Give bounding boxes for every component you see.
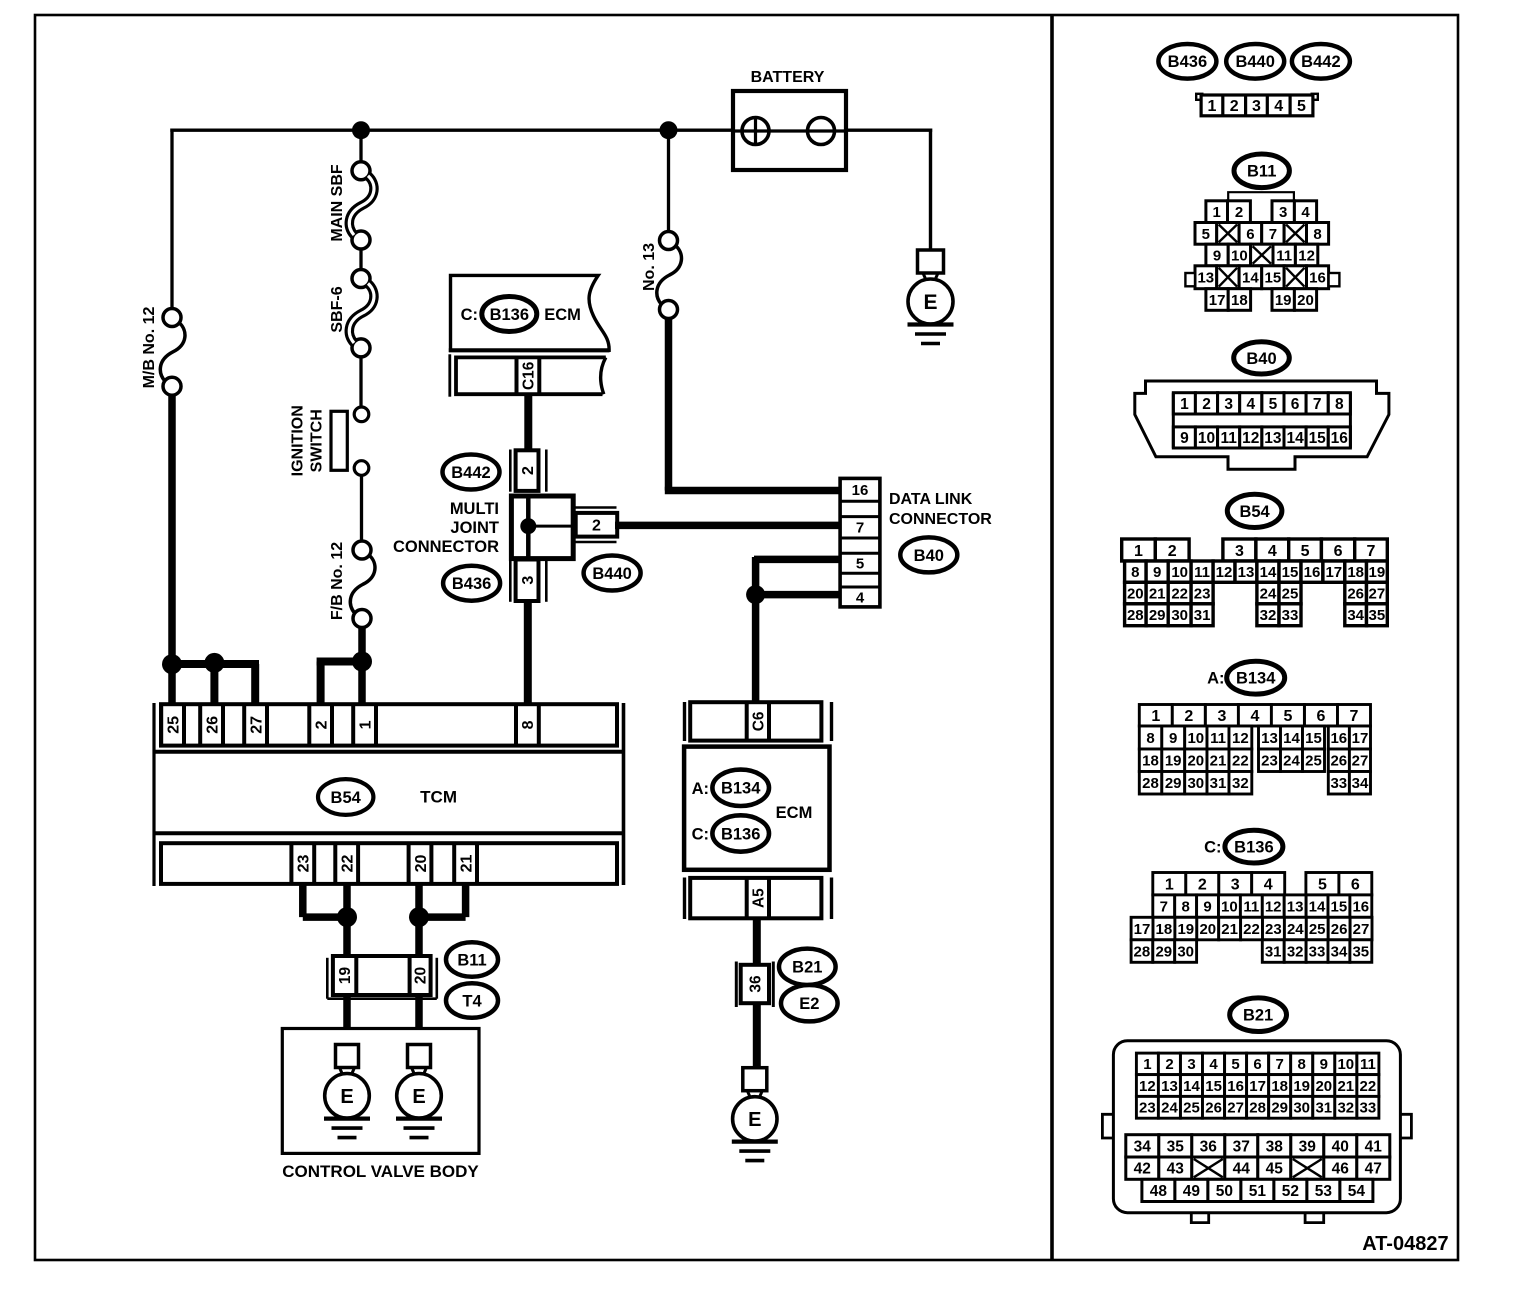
svg-text:9: 9 — [1320, 1056, 1328, 1073]
fuse No. 13 — [657, 232, 682, 319]
connector label B54 — [1227, 494, 1282, 527]
svg-text:4: 4 — [1301, 204, 1310, 221]
ground E (battery negative) — [908, 250, 954, 344]
svg-text:19: 19 — [1275, 292, 1292, 309]
svg-text:B11: B11 — [1247, 163, 1276, 181]
wire: pin 36 to ground — [753, 1003, 761, 1068]
svg-text:42: 42 — [1134, 1161, 1151, 1178]
panel divider — [1050, 16, 1054, 1259]
node: junction TCM 22/23 — [337, 907, 357, 927]
svg-text:14: 14 — [1242, 270, 1259, 287]
connector B442 pin 2 — [510, 450, 546, 492]
svg-text:33: 33 — [1360, 1100, 1377, 1117]
svg-text:6: 6 — [1291, 396, 1300, 413]
svg-text:28: 28 — [1127, 607, 1144, 624]
svg-text:3: 3 — [1224, 396, 1233, 413]
svg-text:23: 23 — [1139, 1100, 1156, 1117]
svg-text:CONNECTOR: CONNECTOR — [393, 538, 499, 556]
svg-text:27: 27 — [1352, 753, 1369, 770]
TCM pin 26 — [200, 704, 223, 745]
label T4 — [446, 983, 498, 1018]
svg-text:9: 9 — [1213, 247, 1221, 264]
svg-text:C6: C6 — [750, 711, 767, 731]
svg-text:9: 9 — [1180, 430, 1189, 447]
svg-text:10: 10 — [1171, 564, 1188, 581]
svg-text:7: 7 — [1276, 1056, 1284, 1073]
svg-text:15: 15 — [1309, 430, 1327, 447]
connector B436 pin 3 — [510, 559, 546, 602]
svg-text:7: 7 — [1269, 226, 1277, 243]
svg-text:35: 35 — [1369, 607, 1386, 624]
label B21 — [779, 949, 836, 985]
svg-text:A5: A5 — [750, 888, 767, 908]
svg-text:2: 2 — [1198, 877, 1207, 894]
svg-text:C16: C16 — [521, 361, 538, 390]
svg-text:40: 40 — [1332, 1138, 1349, 1155]
svg-text:4: 4 — [1264, 877, 1273, 894]
svg-text:4: 4 — [856, 589, 865, 606]
svg-text:35: 35 — [1352, 943, 1369, 960]
svg-text:1: 1 — [1165, 877, 1174, 894]
svg-text:27: 27 — [1369, 585, 1386, 602]
svg-text:50: 50 — [1216, 1183, 1233, 1200]
svg-text:B54: B54 — [1239, 503, 1270, 521]
module TCM with connector B54 — [154, 703, 624, 886]
wire: branch to TCM pins 26 and 27 — [172, 660, 259, 668]
svg-text:16: 16 — [852, 482, 869, 499]
svg-text:19: 19 — [1293, 1078, 1310, 1095]
svg-text:SWITCH: SWITCH — [308, 409, 325, 472]
svg-text:6: 6 — [1317, 708, 1326, 725]
svg-text:8: 8 — [1298, 1056, 1306, 1073]
svg-text:ECM: ECM — [776, 804, 813, 822]
wire: MAIN SBF branch vertical — [359, 129, 362, 164]
svg-text:8: 8 — [1146, 730, 1154, 747]
svg-text:B136: B136 — [1234, 839, 1273, 857]
svg-text:15: 15 — [1305, 730, 1322, 747]
svg-text:4: 4 — [1274, 98, 1283, 115]
svg-text:32: 32 — [1287, 943, 1304, 960]
svg-text:B442: B442 — [451, 464, 490, 482]
svg-text:2: 2 — [520, 466, 537, 475]
svg-text:8: 8 — [1335, 396, 1344, 413]
svg-text:20: 20 — [1297, 292, 1314, 309]
svg-text:27: 27 — [1227, 1100, 1244, 1117]
svg-text:M/B No. 12: M/B No. 12 — [141, 307, 158, 389]
svg-text:22: 22 — [340, 855, 357, 873]
label B440 — [584, 556, 641, 591]
node: junction TCM 20/21 — [409, 907, 429, 927]
svg-text:1: 1 — [1207, 98, 1216, 115]
svg-text:5: 5 — [1202, 226, 1210, 243]
svg-text:11: 11 — [1243, 899, 1259, 916]
svg-text:16: 16 — [1227, 1078, 1244, 1095]
svg-text:10: 10 — [1187, 730, 1204, 747]
wire: MJC B440 pin 2 to DLC pin 7 — [615, 522, 841, 530]
svg-text:7: 7 — [1350, 708, 1359, 725]
connector label B442 — [1292, 44, 1350, 79]
svg-text:B134: B134 — [1236, 670, 1276, 688]
TCM pin 22 — [335, 843, 358, 884]
node: junction at TCM pin 25 — [162, 654, 182, 674]
svg-text:B134: B134 — [721, 780, 761, 798]
wire: branch to TCM pin 2 — [317, 658, 362, 666]
fuse F/B No. 12 — [350, 541, 375, 628]
module ECM A:B134 C:B136 — [685, 702, 832, 741]
svg-text:9: 9 — [1203, 899, 1211, 916]
svg-text:MULTI: MULTI — [450, 500, 499, 518]
svg-text:B21: B21 — [1243, 1007, 1273, 1025]
svg-text:32: 32 — [1337, 1100, 1354, 1117]
svg-text:3: 3 — [1187, 1056, 1195, 1073]
node: junction at TCM pin 26 branch — [204, 653, 224, 673]
svg-text:19: 19 — [1177, 921, 1194, 938]
node: bus junction at No.13 — [660, 121, 678, 139]
svg-text:E: E — [412, 1086, 425, 1108]
label E2 — [781, 985, 838, 1021]
svg-text:1: 1 — [357, 720, 374, 729]
svg-text:E: E — [748, 1109, 761, 1131]
svg-text:22: 22 — [1171, 585, 1188, 602]
svg-text:4: 4 — [1246, 396, 1255, 413]
svg-text:45: 45 — [1266, 1161, 1284, 1178]
svg-text:B436: B436 — [452, 575, 491, 593]
svg-text:24: 24 — [1283, 753, 1300, 770]
svg-text:5: 5 — [1297, 98, 1306, 115]
svg-text:3: 3 — [1217, 708, 1226, 725]
svg-text:E: E — [923, 291, 937, 314]
svg-text:29: 29 — [1155, 943, 1172, 960]
svg-text:26: 26 — [1205, 1100, 1222, 1117]
svg-text:4: 4 — [1209, 1056, 1218, 1073]
svg-text:13: 13 — [1161, 1078, 1178, 1095]
svg-text:54: 54 — [1348, 1183, 1366, 1200]
wire: F/B fuse to TCM pin 1 — [358, 627, 366, 705]
svg-text:27: 27 — [248, 716, 265, 734]
svg-text:C:: C: — [461, 306, 478, 324]
svg-text:4: 4 — [1250, 708, 1259, 725]
svg-text:15: 15 — [1205, 1078, 1222, 1095]
label B442 — [443, 455, 500, 490]
svg-text:A:: A: — [692, 780, 709, 798]
svg-text:5: 5 — [1269, 396, 1278, 413]
svg-text:7: 7 — [1367, 543, 1376, 560]
svg-text:E2: E2 — [799, 995, 819, 1013]
wire: TCM pin 23 / 22 to T4 pin 19 — [299, 884, 307, 917]
svg-text:30: 30 — [1177, 943, 1194, 960]
svg-text:8: 8 — [1131, 564, 1139, 581]
wire: MJC B436 pin 3 to TCM pin 8 — [524, 600, 532, 705]
svg-text:2: 2 — [1184, 708, 1193, 725]
svg-text:B54: B54 — [331, 789, 362, 807]
svg-text:34: 34 — [1331, 943, 1348, 960]
svg-text:6: 6 — [1351, 877, 1360, 894]
svg-text:3: 3 — [520, 576, 537, 585]
connector B440 pin 2 — [575, 508, 618, 543]
wire: M/B fuse to TCM pin 25 — [168, 394, 176, 705]
svg-text:28: 28 — [1249, 1100, 1266, 1117]
svg-text:5: 5 — [856, 556, 864, 573]
svg-text:14: 14 — [1309, 899, 1326, 916]
svg-text:26: 26 — [1331, 921, 1348, 938]
svg-text:9: 9 — [1169, 730, 1177, 747]
svg-text:53: 53 — [1315, 1183, 1333, 1200]
wire: T4 pin 20 to valve body — [415, 995, 423, 1045]
svg-text:22: 22 — [1360, 1078, 1377, 1095]
svg-text:JOINT: JOINT — [450, 519, 499, 537]
svg-text:11: 11 — [1360, 1056, 1376, 1073]
svg-text:2: 2 — [1168, 543, 1177, 560]
data link connector B40 — [840, 478, 880, 607]
svg-text:1: 1 — [1213, 204, 1221, 221]
svg-text:29: 29 — [1165, 775, 1182, 792]
TCM pin 8 — [516, 704, 539, 745]
svg-text:49: 49 — [1183, 1183, 1201, 1200]
svg-text:22: 22 — [1243, 921, 1260, 938]
svg-text:8: 8 — [1313, 226, 1321, 243]
ground E (valve body left) — [324, 1045, 370, 1138]
svg-text:2: 2 — [1230, 98, 1239, 115]
svg-text:36: 36 — [747, 975, 764, 993]
connector label B11 — [1234, 154, 1289, 188]
svg-text:15: 15 — [1282, 564, 1299, 581]
wire: ECM A5 to B21 pin 36 — [753, 918, 761, 966]
connector B21/E2 pin 36 — [736, 962, 773, 1008]
svg-text:5: 5 — [1318, 877, 1327, 894]
svg-text:30: 30 — [1293, 1100, 1310, 1117]
svg-text:30: 30 — [1171, 607, 1188, 624]
svg-text:18: 18 — [1142, 753, 1159, 770]
wire — [359, 356, 362, 408]
control valve body — [282, 1029, 479, 1154]
svg-text:15: 15 — [1265, 270, 1282, 287]
svg-text:26: 26 — [204, 716, 221, 734]
svg-text:26: 26 — [1330, 753, 1347, 770]
svg-text:DATA LINK: DATA LINK — [889, 491, 973, 508]
wire: T4 pin 19 to valve body — [343, 995, 351, 1045]
svg-text:1: 1 — [1151, 708, 1160, 725]
svg-text:17: 17 — [1325, 564, 1342, 581]
svg-text:30: 30 — [1187, 775, 1204, 792]
svg-text:F/B No. 12: F/B No. 12 — [329, 542, 346, 620]
svg-text:21: 21 — [1149, 585, 1166, 602]
svg-text:16: 16 — [1331, 430, 1349, 447]
svg-text:T4: T4 — [462, 992, 482, 1010]
svg-text:C:: C: — [692, 826, 709, 844]
connector B11/T4 pins 19,20 — [327, 956, 437, 999]
svg-text:14: 14 — [1260, 564, 1277, 581]
svg-text:12: 12 — [1298, 247, 1315, 264]
svg-text:31: 31 — [1265, 943, 1282, 960]
connector pinout B21 pins 1-54 — [1102, 1041, 1411, 1223]
svg-text:36: 36 — [1200, 1138, 1218, 1155]
svg-text:34: 34 — [1347, 607, 1364, 624]
svg-text:24: 24 — [1161, 1100, 1178, 1117]
svg-text:46: 46 — [1332, 1161, 1350, 1178]
svg-text:31: 31 — [1315, 1100, 1332, 1117]
svg-text:21: 21 — [1210, 753, 1227, 770]
wire: ECM C16 to MJC B442 pin 2 — [524, 394, 532, 452]
ground E (valve body right) — [396, 1045, 442, 1138]
svg-text:15: 15 — [1331, 899, 1348, 916]
svg-text:16: 16 — [1304, 564, 1321, 581]
svg-text:21: 21 — [1221, 921, 1238, 938]
svg-text:37: 37 — [1233, 1138, 1250, 1155]
svg-text:16: 16 — [1309, 270, 1326, 287]
connector pinout B54 pins 1-35 — [1122, 539, 1388, 626]
wire: No.13 branch vertical — [667, 129, 670, 234]
svg-text:18: 18 — [1231, 292, 1248, 309]
wire: battery to ground vertical — [929, 129, 932, 251]
node: bus junction at MAIN SBF — [352, 121, 370, 139]
node: junction DLC pin 4 branch — [746, 585, 765, 604]
svg-text:10: 10 — [1337, 1056, 1354, 1073]
svg-text:33: 33 — [1330, 775, 1347, 792]
svg-text:2: 2 — [1165, 1056, 1173, 1073]
svg-text:3: 3 — [1252, 98, 1261, 115]
label B436 — [443, 566, 500, 601]
svg-text:44: 44 — [1233, 1161, 1251, 1178]
svg-text:CONTROL VALVE BODY: CONTROL VALVE BODY — [282, 1162, 479, 1181]
svg-text:28: 28 — [1134, 943, 1151, 960]
fuse M/B No. 12 — [160, 309, 185, 396]
svg-text:18: 18 — [1271, 1078, 1288, 1095]
svg-text:13: 13 — [1238, 564, 1255, 581]
svg-text:43: 43 — [1167, 1161, 1185, 1178]
svg-text:2: 2 — [313, 720, 330, 729]
svg-text:MAIN SBF: MAIN SBF — [329, 164, 346, 242]
TCM pin 23 — [291, 843, 314, 884]
svg-text:25: 25 — [1309, 921, 1326, 938]
ignition switch — [331, 407, 369, 475]
svg-text:25: 25 — [1282, 585, 1299, 602]
svg-text:47: 47 — [1365, 1161, 1382, 1178]
svg-text:18: 18 — [1347, 564, 1364, 581]
wire — [360, 475, 363, 542]
connector pinout B11 pins 1-20 — [1185, 192, 1339, 310]
connector label B440 — [1226, 44, 1284, 79]
svg-text:1: 1 — [1180, 396, 1189, 413]
svg-text:9: 9 — [1153, 564, 1161, 581]
svg-text:6: 6 — [1334, 543, 1343, 560]
svg-text:32: 32 — [1232, 775, 1249, 792]
svg-text:3: 3 — [1279, 204, 1287, 221]
svg-text:27: 27 — [1353, 921, 1370, 938]
wire: M/B No.12 branch vertical — [170, 129, 173, 311]
TCM pin 21 — [454, 843, 477, 884]
ECM pin C16 connector strip — [450, 354, 606, 396]
svg-text:12: 12 — [1216, 564, 1233, 581]
svg-text:51: 51 — [1249, 1183, 1267, 1200]
svg-text:19: 19 — [1369, 564, 1386, 581]
ECM pin A5 connector strip — [685, 878, 832, 920]
svg-text:12: 12 — [1265, 899, 1282, 916]
battery — [733, 69, 846, 170]
svg-text:26: 26 — [1347, 585, 1364, 602]
svg-text:18: 18 — [1156, 921, 1173, 938]
svg-text:28: 28 — [1142, 775, 1159, 792]
wire: battery supply bus — [170, 128, 932, 131]
svg-text:BATTERY: BATTERY — [751, 69, 825, 86]
svg-text:20: 20 — [413, 967, 430, 984]
TCM pin 20 — [409, 843, 432, 884]
label B40 — [900, 537, 957, 572]
svg-text:33: 33 — [1309, 943, 1326, 960]
svg-text:1: 1 — [1143, 1056, 1151, 1073]
svg-text:24: 24 — [1287, 921, 1304, 938]
svg-text:8: 8 — [1182, 899, 1190, 916]
node: junction at TCM pin 1 — [352, 652, 372, 672]
connector label B40 — [1234, 342, 1290, 374]
svg-text:16: 16 — [1330, 730, 1347, 747]
svg-text:1: 1 — [1134, 543, 1143, 560]
svg-text:13: 13 — [1261, 730, 1278, 747]
svg-text:8: 8 — [520, 720, 537, 729]
svg-text:14: 14 — [1283, 730, 1300, 747]
svg-text:4: 4 — [1268, 543, 1277, 560]
label B54 (TCM) — [318, 779, 373, 815]
svg-text:23: 23 — [1261, 753, 1278, 770]
TCM pin 1 — [353, 704, 376, 745]
svg-text:B436: B436 — [1168, 53, 1207, 71]
svg-text:23: 23 — [1194, 585, 1211, 602]
connector pinout B436/B440/B442 pins 1-5 — [1196, 94, 1318, 116]
svg-text:2: 2 — [1235, 204, 1243, 221]
connector pinout B134 pins 1-34 — [1139, 705, 1370, 795]
fuse MAIN SBF — [349, 162, 374, 249]
svg-text:34: 34 — [1134, 1138, 1152, 1155]
connector pinout B136 pins 1-35 — [1131, 873, 1372, 963]
svg-text:13: 13 — [1197, 270, 1214, 287]
svg-text:52: 52 — [1282, 1183, 1299, 1200]
svg-text:11: 11 — [1194, 564, 1210, 581]
multi joint connector body — [511, 496, 573, 559]
svg-text:17: 17 — [1352, 730, 1369, 747]
svg-text:ECM: ECM — [544, 306, 581, 324]
label B11 — [446, 942, 498, 977]
svg-text:31: 31 — [1210, 775, 1227, 792]
TCM pin 25 — [161, 704, 184, 745]
svg-text:32: 32 — [1260, 607, 1277, 624]
svg-text:41: 41 — [1365, 1138, 1383, 1155]
svg-text:E: E — [340, 1086, 353, 1108]
svg-text:38: 38 — [1266, 1138, 1284, 1155]
svg-text:13: 13 — [1287, 899, 1304, 916]
svg-text:10: 10 — [1198, 430, 1215, 447]
svg-text:No. 13: No. 13 — [641, 243, 658, 291]
connector pinout B40 pins 1-16 — [1135, 381, 1389, 469]
svg-text:17: 17 — [1249, 1078, 1266, 1095]
svg-text:14: 14 — [1183, 1078, 1200, 1095]
svg-text:3: 3 — [1235, 543, 1244, 560]
svg-text:SBF-6: SBF-6 — [329, 286, 346, 332]
svg-text:48: 48 — [1150, 1183, 1168, 1200]
svg-text:12: 12 — [1139, 1078, 1156, 1095]
svg-text:TCM: TCM — [420, 788, 457, 807]
svg-text:6: 6 — [1253, 1056, 1261, 1073]
wire: TCM pin 21 / 20 to T4 pin 20 — [462, 884, 470, 917]
svg-text:B442: B442 — [1301, 53, 1340, 71]
fuse SBF-6 — [349, 270, 374, 357]
svg-text:33: 33 — [1282, 607, 1299, 624]
svg-text:B40: B40 — [1246, 350, 1276, 368]
svg-text:34: 34 — [1352, 775, 1369, 792]
svg-text:11: 11 — [1221, 430, 1238, 447]
svg-text:C:: C: — [1204, 839, 1221, 857]
svg-text:2: 2 — [1202, 396, 1211, 413]
svg-text:20: 20 — [1315, 1078, 1332, 1095]
svg-text:25: 25 — [1183, 1100, 1200, 1117]
